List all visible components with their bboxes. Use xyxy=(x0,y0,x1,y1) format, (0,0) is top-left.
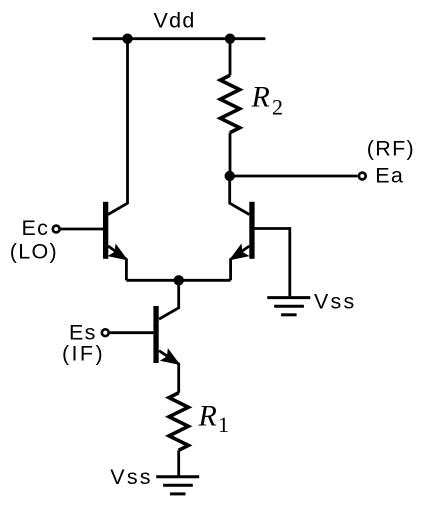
node output junction xyxy=(225,171,235,181)
node emitter junction xyxy=(174,275,184,285)
terminal Ec xyxy=(53,226,60,233)
wire tail emitter lead xyxy=(159,351,179,393)
wire R1 bottom lead xyxy=(177,450,180,477)
svg-text:(IF): (IF) xyxy=(62,342,105,366)
wire tail collector branch xyxy=(159,280,179,319)
wire right base lead to Vss xyxy=(255,229,290,297)
node Vdd-right junction xyxy=(225,34,235,44)
label R2 xyxy=(251,81,284,120)
svg-text:Vss: Vss xyxy=(314,289,356,313)
wire right emitter lead xyxy=(231,246,250,280)
wire right collector branch xyxy=(230,176,250,215)
wire R2 top lead xyxy=(229,39,232,76)
svg-text:1: 1 xyxy=(218,412,229,437)
resistor R2 xyxy=(220,75,239,132)
svg-text:Ec: Ec xyxy=(22,216,50,240)
wire left emitter lead xyxy=(108,246,126,280)
node Vdd-left junction xyxy=(122,34,132,44)
ground right Vss xyxy=(267,298,310,315)
svg-text:Vss: Vss xyxy=(110,465,152,489)
transistor Q2 emitter arrow xyxy=(231,245,248,259)
terminal Es xyxy=(102,329,109,336)
svg-text:R: R xyxy=(198,400,217,433)
svg-text:(RF): (RF) xyxy=(367,137,415,161)
svg-text:Ea: Ea xyxy=(375,164,404,188)
svg-text:R: R xyxy=(251,81,270,114)
label R1 xyxy=(198,400,230,438)
terminal Ea xyxy=(359,173,366,180)
wire left collector branch xyxy=(108,39,128,215)
wire Vdd rail xyxy=(93,37,266,40)
svg-text:2: 2 xyxy=(272,95,283,120)
wire tail base lead from Es xyxy=(110,331,154,334)
transistor Q1 base bar xyxy=(103,202,108,259)
wire emitter join xyxy=(126,279,230,282)
wire left base lead from Ec xyxy=(61,228,103,231)
transistor Q1 emitter arrow xyxy=(109,245,126,259)
wire R2 bottom lead xyxy=(229,133,232,176)
svg-text:(LO): (LO) xyxy=(10,239,58,263)
transistor Q3 emitter arrow xyxy=(162,350,179,364)
svg-text:Vdd: Vdd xyxy=(154,9,196,33)
transistor Q2 base bar xyxy=(249,202,254,259)
ground bottom Vss xyxy=(156,477,199,494)
wire output to Ea terminal xyxy=(230,175,358,178)
transistor Q3 base bar xyxy=(153,306,158,363)
resistor R1 xyxy=(169,393,188,450)
